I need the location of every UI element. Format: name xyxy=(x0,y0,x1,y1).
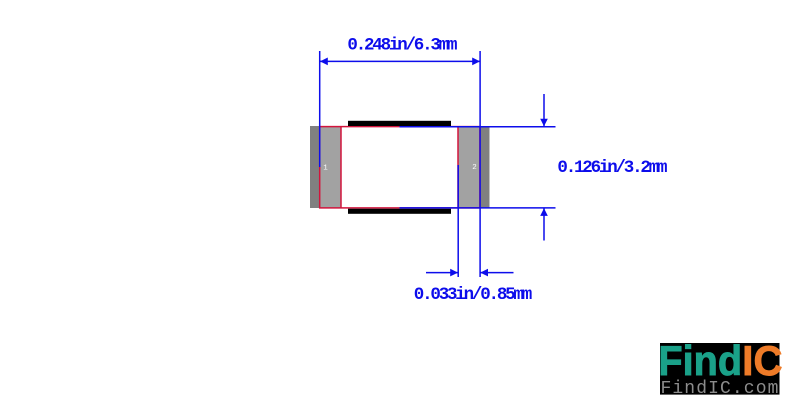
terminal 2 inner edge (red) xyxy=(457,127,459,208)
dim B upper arrow line xyxy=(543,94,545,126)
terminal 1 inner edge (red) xyxy=(340,127,342,208)
dim C left arrow line xyxy=(426,272,458,274)
logo background xyxy=(660,343,780,395)
svg-text:0.248in/6.3mm: 0.248in/6.3mm xyxy=(347,35,457,55)
body outline (red) xyxy=(320,127,480,208)
dim B lower arrowhead (up) xyxy=(540,208,548,216)
dim C left arrowhead (right) xyxy=(450,269,458,277)
dim A extension line left (x=319.7) xyxy=(319,51,321,167)
body top edge bar (black) xyxy=(348,121,451,126)
svg-text:Find: Find xyxy=(658,337,742,384)
body bottom edge bar (black) xyxy=(348,209,451,214)
svg-text:0.126in/3.2mm: 0.126in/3.2mm xyxy=(557,158,667,178)
terminal 2 (right end-cap, light gray) xyxy=(458,126,480,208)
dim C right arrow line xyxy=(480,272,513,274)
svg-text:0.033in/0.85mm: 0.033in/0.85mm xyxy=(414,285,532,305)
dim A arrowhead right xyxy=(472,58,480,66)
svg-text:IC: IC xyxy=(742,337,782,384)
dim A arrowhead left xyxy=(320,58,328,66)
pad P2 (right solder pad, dark gray) xyxy=(480,126,490,208)
svg-text:FindIC.com: FindIC.com xyxy=(661,379,780,399)
dim C right arrowhead (left) xyxy=(480,269,488,277)
dim B lower arrow line xyxy=(543,208,545,240)
dim A line (width 6.3mm) xyxy=(320,60,480,62)
dim B extension line top (y=126.2) xyxy=(400,126,556,128)
dim B extension line bottom (y=207.9) xyxy=(400,207,556,209)
svg-text:2: 2 xyxy=(472,164,477,172)
dim B upper arrowhead (down) xyxy=(540,119,548,127)
terminal 1 (left end-cap, light gray) xyxy=(320,126,342,208)
dim A+C extension line right (x=480.1) xyxy=(479,51,481,277)
pad P1 (left solder pad, dark gray) xyxy=(310,126,320,208)
svg-text:1: 1 xyxy=(323,165,328,173)
dim C extension line inner (x=458.2) xyxy=(457,165,459,277)
